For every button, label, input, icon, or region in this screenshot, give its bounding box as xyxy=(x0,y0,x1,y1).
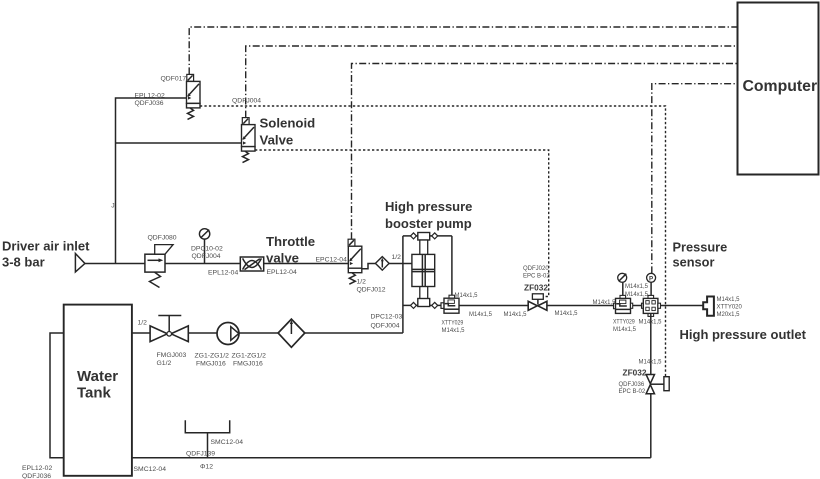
svg-text:sensor: sensor xyxy=(673,255,715,270)
svg-text:M20x1,5: M20x1,5 xyxy=(717,312,741,318)
svg-text:Tank: Tank xyxy=(77,385,112,402)
svg-text:EPC B-02: EPC B-02 xyxy=(523,274,550,280)
svg-text:FMGJ016: FMGJ016 xyxy=(233,361,263,368)
svg-text:EPL12-04: EPL12-04 xyxy=(267,269,297,276)
svg-text:QDFJ004: QDFJ004 xyxy=(371,323,400,330)
svg-text:DPC10-02: DPC10-02 xyxy=(191,246,223,253)
svg-text:QDFJ036: QDFJ036 xyxy=(135,100,164,107)
svg-text:M14x1,5: M14x1,5 xyxy=(639,360,663,366)
svg-text:M14x1,5: M14x1,5 xyxy=(717,297,741,303)
svg-text:booster pump: booster pump xyxy=(385,216,472,231)
svg-text:Computer: Computer xyxy=(743,78,818,95)
svg-text:XTTY029: XTTY029 xyxy=(442,321,464,327)
svg-text:1/2: 1/2 xyxy=(357,279,367,286)
svg-text:G1/2: G1/2 xyxy=(157,360,172,367)
svg-text:Φ12: Φ12 xyxy=(200,464,213,471)
svg-text:SMC12-04: SMC12-04 xyxy=(134,466,167,473)
svg-text:Water: Water xyxy=(77,368,118,385)
svg-text:Pressure: Pressure xyxy=(673,240,728,255)
svg-text:1/2: 1/2 xyxy=(138,320,148,327)
svg-text:P: P xyxy=(649,275,653,282)
svg-text:ZF032: ZF032 xyxy=(524,283,548,293)
svg-text:EPL12-04: EPL12-04 xyxy=(208,270,238,277)
svg-text:FMGJ003: FMGJ003 xyxy=(157,352,187,359)
svg-text:High pressure outlet: High pressure outlet xyxy=(680,327,807,342)
svg-text:valve: valve xyxy=(266,251,299,266)
svg-text:Driver air inlet: Driver air inlet xyxy=(2,239,90,254)
svg-text:M14x1,5: M14x1,5 xyxy=(593,300,617,306)
svg-text:Valve: Valve xyxy=(260,133,294,148)
svg-text:SMC12-04: SMC12-04 xyxy=(211,439,244,446)
svg-text:M14x1,5: M14x1,5 xyxy=(613,327,637,333)
svg-text:Throttle: Throttle xyxy=(266,234,315,249)
svg-text:High pressure: High pressure xyxy=(385,199,472,214)
svg-text:QDFJ139: QDFJ139 xyxy=(186,451,215,458)
svg-text:3-8 bar: 3-8 bar xyxy=(2,255,45,270)
svg-text:QDFJ012: QDFJ012 xyxy=(357,287,386,294)
svg-text:FMGJ016: FMGJ016 xyxy=(196,361,226,368)
svg-text:M14x1,5: M14x1,5 xyxy=(455,293,479,299)
svg-text:QDFJ036: QDFJ036 xyxy=(22,473,51,479)
svg-text:ZF032: ZF032 xyxy=(623,368,647,378)
svg-text:QDFJ020: QDFJ020 xyxy=(523,266,549,272)
svg-text:J: J xyxy=(111,203,114,210)
svg-text:QDF017: QDF017 xyxy=(161,76,187,83)
svg-text:M14x1,5: M14x1,5 xyxy=(442,328,466,334)
svg-text:M14x1,5: M14x1,5 xyxy=(625,284,649,290)
svg-text:QDFJ004: QDFJ004 xyxy=(192,253,221,260)
svg-text:M14x1,5: M14x1,5 xyxy=(469,312,493,318)
svg-text:DPC12-03: DPC12-03 xyxy=(371,314,403,321)
svg-text:XTTY029: XTTY029 xyxy=(613,320,635,326)
svg-text:M14x1,5: M14x1,5 xyxy=(625,292,649,298)
svg-text:M14x1,5: M14x1,5 xyxy=(555,311,579,317)
svg-text:EPC B-02: EPC B-02 xyxy=(619,389,646,395)
svg-text:EPC12-04: EPC12-04 xyxy=(316,257,348,264)
svg-text:QDFJ080: QDFJ080 xyxy=(148,235,177,242)
svg-text:EPL12-02: EPL12-02 xyxy=(22,465,52,472)
svg-text:ZG1-ZG1/2: ZG1-ZG1/2 xyxy=(195,353,230,360)
svg-text:XTTY020: XTTY020 xyxy=(717,305,743,311)
svg-text:EPL12-02: EPL12-02 xyxy=(135,93,165,100)
svg-text:Solenoid: Solenoid xyxy=(260,116,316,131)
svg-text:1/2: 1/2 xyxy=(392,254,402,261)
svg-text:QDFJ004: QDFJ004 xyxy=(232,98,261,105)
svg-text:QDFJ036: QDFJ036 xyxy=(619,382,645,388)
svg-text:ZG1-ZG1/2: ZG1-ZG1/2 xyxy=(232,353,267,360)
svg-text:M14x1,5: M14x1,5 xyxy=(504,312,528,318)
